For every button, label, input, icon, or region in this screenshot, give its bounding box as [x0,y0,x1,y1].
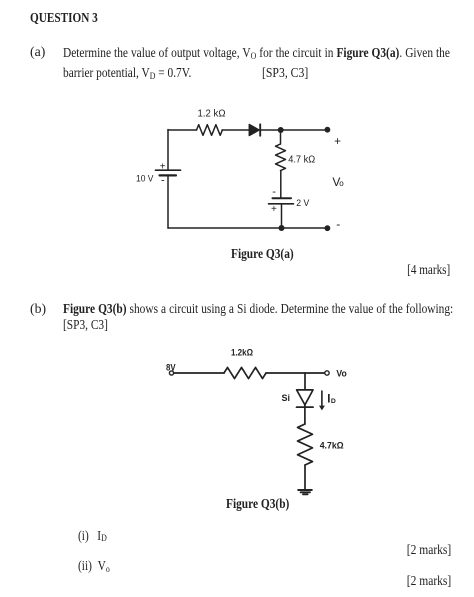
svg-text:1.2kΩ: 1.2kΩ [231,348,253,358]
svg-text:2 V: 2 V [296,198,309,208]
svg-text:o: o [339,179,344,188]
svg-text:-: - [272,186,276,198]
svg-text:10 V: 10 V [136,174,154,184]
svg-text:4.7 kΩ: 4.7 kΩ [288,153,315,165]
svg-text:+: + [160,161,166,172]
svg-text:4.7kΩ: 4.7kΩ [320,441,344,451]
svg-text:+: + [334,136,341,148]
svg-text:+: + [271,204,277,215]
svg-text:8V: 8V [166,362,176,372]
svg-text:1.2 kΩ: 1.2 kΩ [198,108,226,120]
svg-text:D: D [331,398,336,405]
svg-text:Vo: Vo [336,369,347,380]
svg-text:-: - [336,217,340,231]
svg-text:-: - [161,175,165,187]
svg-text:Si: Si [282,393,291,403]
